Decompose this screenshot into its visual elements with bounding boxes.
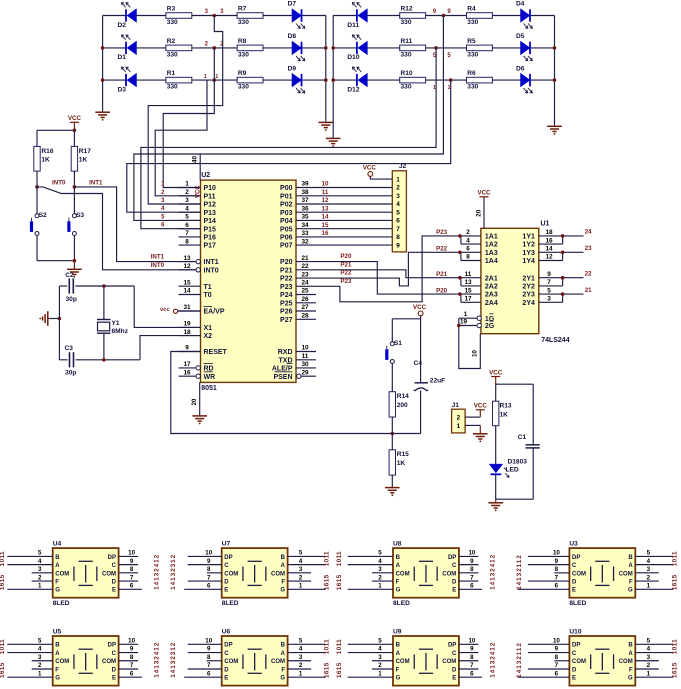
LED D1 (126, 41, 137, 55)
wire to junction (192, 15, 237, 17)
svg-text:23: 23 (585, 245, 592, 252)
wire (531, 47, 555, 49)
svg-text:30: 30 (301, 361, 309, 368)
svg-text:14: 14 (322, 214, 329, 221)
svg-text:10: 10 (553, 638, 560, 645)
pin 16 WR (179, 375, 197, 377)
svg-text:1A4: 1A4 (485, 258, 498, 265)
svg-text:S3: S3 (76, 212, 84, 219)
resistor R12 330 (400, 13, 426, 19)
wire S1 bottom (391, 364, 393, 392)
svg-text:26: 26 (301, 296, 309, 303)
U6 pin 7 D (188, 668, 222, 670)
svg-text:R10: R10 (401, 70, 413, 77)
U4 pin 9 C (119, 564, 139, 566)
svg-text:9: 9 (207, 646, 211, 653)
svg-text:4: 4 (396, 201, 400, 208)
wire net INT1 to MCU (74, 187, 196, 262)
wire LED bottom (495, 474, 497, 499)
svg-text:8LED: 8LED (393, 600, 410, 607)
svg-text:5: 5 (547, 287, 551, 294)
svg-text:F: F (396, 579, 400, 585)
U5 pin 2 F (32, 668, 53, 670)
svg-text:2: 2 (185, 189, 189, 196)
LED D4 emission arrows (524, 24, 533, 29)
ground below switches (67, 269, 82, 274)
wire (263, 47, 292, 49)
svg-text:2: 2 (38, 662, 42, 669)
U8 pin 4 A (348, 564, 393, 566)
svg-text:R15: R15 (397, 451, 409, 458)
svg-text:1: 1 (396, 177, 400, 184)
wire net INT0 to MCU (37, 187, 196, 270)
svg-text:15: 15 (322, 222, 329, 229)
junction dot right rail (553, 46, 557, 50)
svg-text:7: 7 (555, 574, 559, 581)
U10 pin 9 C (528, 652, 570, 654)
svg-text:P20: P20 (280, 259, 293, 266)
svg-text:U4: U4 (53, 541, 62, 548)
U3 pin 5 B (635, 555, 673, 557)
wire to junction (426, 79, 467, 81)
LED D13 emission arrows (504, 468, 509, 478)
svg-text:3: 3 (185, 197, 189, 204)
U1 pin 9 2Y1 (539, 277, 563, 279)
capacitor C4 22uF polarized (415, 382, 428, 384)
svg-text:DP: DP (108, 643, 116, 649)
svg-text:1A2: 1A2 (485, 242, 498, 249)
svg-text:A: A (396, 563, 401, 569)
U8 pin 10 DP (459, 555, 479, 557)
wire net P20 (316, 262, 461, 295)
svg-text:6: 6 (555, 670, 559, 677)
U4 pin 1 G (7, 588, 52, 590)
svg-text:6: 6 (470, 583, 474, 590)
resistor R14 200 (389, 392, 395, 417)
capacitor C1 (526, 444, 540, 446)
wire net 22 (563, 277, 584, 279)
junction dot (561, 234, 565, 238)
svg-text:C: C (452, 651, 457, 657)
svg-text:1: 1 (204, 74, 207, 80)
svg-text:VCC: VCC (413, 304, 427, 311)
VCC power port at S1 (418, 311, 423, 316)
svg-text:C: C (112, 651, 117, 657)
svg-text:P20: P20 (436, 288, 448, 295)
U1 pin 17 2A4 (461, 301, 481, 303)
U3 pin 9 C (528, 564, 570, 566)
svg-text:2Y3: 2Y3 (522, 292, 535, 299)
svg-text:13: 13 (183, 255, 191, 262)
U1 pin 7 2Y2 (539, 285, 563, 287)
svg-text:3: 3 (299, 654, 303, 661)
junction dot (561, 251, 565, 255)
VCC power symbol at R13 (491, 376, 500, 378)
U1 pin 5 2Y3 (539, 293, 563, 295)
svg-text:P05: P05 (280, 226, 293, 233)
svg-text:4: 4 (647, 646, 651, 653)
U9 pin 7 D (459, 668, 479, 670)
svg-text:R6: R6 (467, 70, 476, 77)
junction dot (457, 324, 461, 328)
svg-text:34: 34 (301, 222, 309, 229)
svg-text:P04: P04 (280, 218, 293, 225)
svg-text:P21: P21 (280, 267, 293, 274)
svg-text:COM: COM (396, 659, 410, 665)
wire (303, 47, 326, 49)
junction dot (391, 432, 395, 436)
svg-text:P17: P17 (204, 243, 217, 250)
wire (137, 15, 166, 17)
U8 pin 8 COM (459, 572, 479, 574)
svg-text:22: 22 (301, 263, 309, 270)
svg-text:R4: R4 (467, 6, 476, 13)
wire to ground (73, 261, 75, 270)
U9 segment drawing (414, 649, 437, 673)
svg-text:9: 9 (130, 558, 134, 565)
U4 pin 6 E (119, 588, 142, 590)
LED D10 emission arrows (352, 35, 361, 40)
U8 pin 2 F (372, 580, 393, 582)
svg-text:D: D (452, 579, 457, 585)
svg-text:4: 4 (299, 558, 303, 565)
pin 15 T1 (179, 285, 201, 287)
svg-text:DP: DP (448, 643, 456, 649)
svg-text:5: 5 (396, 209, 400, 216)
svg-text:P06: P06 (280, 235, 293, 242)
svg-text:10: 10 (322, 181, 329, 188)
svg-text:15: 15 (464, 287, 472, 294)
svg-text:1: 1 (38, 670, 42, 677)
U4 segment drawing (74, 561, 97, 585)
pin 8 P17 (179, 244, 201, 246)
pin 40 VCC stub (199, 154, 201, 180)
svg-text:P22: P22 (280, 276, 293, 283)
svg-text:11: 11 (302, 353, 309, 360)
svg-text:6: 6 (470, 670, 474, 677)
svg-text:8: 8 (207, 566, 211, 573)
U1 pin 8 1A4 (461, 260, 481, 262)
svg-text:J1: J1 (452, 402, 460, 409)
wire net P21 (316, 270, 461, 278)
svg-text:P11: P11 (204, 193, 216, 200)
U9 pin 1 G (348, 676, 393, 678)
U5 pin 1 G (7, 676, 52, 678)
svg-text:1: 1 (299, 670, 303, 677)
svg-text:4: 4 (378, 558, 382, 565)
svg-text:P07: P07 (280, 243, 293, 250)
svg-text:9: 9 (130, 646, 134, 653)
wire net 5 (right row2 to P15) (141, 48, 436, 229)
svg-text:2: 2 (457, 415, 461, 422)
svg-text:1615: 1615 (0, 662, 6, 678)
svg-text:9: 9 (555, 558, 559, 565)
U9 pin 2 F (372, 668, 393, 670)
U7 pin 5 B (288, 555, 326, 557)
U3 pin 8 COM (554, 572, 569, 574)
svg-text:1: 1 (447, 85, 450, 91)
U5 segment drawing (74, 649, 97, 673)
junction dot right rail (324, 46, 328, 50)
svg-text:18: 18 (545, 229, 553, 236)
svg-text:RXD: RXD (278, 349, 293, 356)
wire to R16 (36, 130, 38, 146)
ground left array right rail (319, 122, 334, 127)
LED D2 (126, 9, 137, 23)
svg-text:1011: 1011 (336, 639, 343, 654)
svg-text:9: 9 (207, 558, 211, 565)
wire bottom rail (496, 498, 534, 500)
svg-text:8: 8 (470, 654, 474, 661)
svg-text:7: 7 (207, 662, 211, 669)
U9 pin 8 COM (459, 660, 479, 662)
svg-text:P23: P23 (436, 229, 448, 236)
svg-text:COM: COM (572, 659, 586, 665)
VCC power port at J2 pin1 (368, 172, 373, 177)
junction node 9 (442, 14, 446, 18)
LED D7 (292, 9, 302, 23)
junction dot (458, 292, 462, 296)
svg-text:P26: P26 (280, 309, 293, 316)
wire C4 top (420, 319, 422, 383)
svg-text:P25: P25 (280, 300, 293, 307)
svg-text:14: 14 (183, 288, 191, 295)
svg-text:20: 20 (191, 398, 198, 405)
svg-text:1: 1 (647, 670, 651, 677)
svg-text:10: 10 (301, 345, 309, 352)
svg-text:T0: T0 (204, 292, 212, 299)
svg-text:14132412: 14132412 (154, 554, 161, 590)
svg-text:G: G (396, 676, 401, 682)
U1 pin 6 1A3 (461, 251, 481, 253)
pin 28 P27 (296, 318, 316, 320)
wire R15 top (391, 434, 393, 450)
svg-text:1011: 1011 (0, 639, 6, 654)
pin 20 GND stub (199, 382, 201, 415)
svg-text:6: 6 (185, 222, 189, 229)
U8 pin 1 G (348, 588, 393, 590)
U7 pin 9 C (188, 564, 222, 566)
svg-text:F: F (396, 667, 400, 673)
svg-text:D2: D2 (118, 22, 127, 29)
pin 24 P23 (296, 285, 316, 287)
svg-text:U5: U5 (53, 628, 62, 635)
pin 29 PSEN (301, 375, 316, 377)
U10 pin 10 DP (528, 643, 570, 645)
U6 pin 10 DP (188, 643, 222, 645)
svg-text:7: 7 (470, 662, 474, 669)
svg-text:16: 16 (545, 237, 553, 244)
svg-text:22uF: 22uF (430, 377, 445, 384)
wire switch common rail (37, 260, 74, 262)
wire (531, 79, 555, 81)
resistor R16 1K (34, 146, 40, 171)
wire S2 bottom (36, 236, 38, 261)
svg-text:U10: U10 (569, 628, 581, 635)
U5 pin 8 COM (119, 660, 139, 662)
wire P04 to J2 pin 6 (316, 219, 392, 221)
wire R13 to LED (495, 426, 497, 464)
U9 pin 9 C (459, 652, 479, 654)
pin 14 T0 (179, 294, 201, 296)
junction dot (458, 234, 462, 238)
svg-text:3: 3 (299, 566, 303, 573)
VCC power symbol at pullups (70, 121, 79, 123)
svg-text:2A2: 2A2 (485, 284, 498, 291)
svg-text:R2: R2 (167, 38, 176, 45)
svg-text:T1: T1 (204, 284, 212, 291)
svg-text:P12: P12 (204, 202, 217, 209)
U7 pin 1 G (288, 588, 326, 590)
LED D11 (357, 9, 368, 23)
U7 pin 2 F (288, 580, 312, 582)
pin 32 P07 (296, 244, 316, 246)
wire P03 to J2 pin 5 (316, 211, 392, 213)
wire to junction (426, 47, 467, 49)
svg-text:9: 9 (396, 242, 400, 249)
node INT0 (35, 185, 39, 189)
wire left vertical (58, 286, 60, 360)
U9 pin 6 E (459, 676, 482, 678)
svg-text:5: 5 (378, 550, 382, 557)
svg-text:330: 330 (238, 52, 249, 59)
svg-text:C: C (452, 563, 457, 569)
U1 pin 18 1Y1 (539, 235, 563, 237)
wire C1 bottom (532, 448, 534, 499)
svg-text:5: 5 (647, 550, 651, 557)
svg-text:330: 330 (167, 84, 178, 91)
svg-text:U7: U7 (222, 541, 231, 548)
LED D9 emission arrows (296, 88, 305, 93)
svg-text:5: 5 (299, 638, 303, 645)
svg-text:1: 1 (299, 583, 303, 590)
svg-text:R13: R13 (500, 403, 512, 410)
svg-text:R8: R8 (238, 38, 247, 45)
svg-text:DP: DP (224, 643, 232, 649)
pin 23 P22 (296, 277, 316, 279)
svg-text:DP: DP (224, 555, 232, 561)
svg-text:1Y4: 1Y4 (522, 258, 535, 265)
U8 segment drawing (414, 561, 437, 585)
wire net P23 (316, 236, 461, 302)
svg-text:S1: S1 (394, 340, 402, 347)
U10 pin 3 COM (635, 660, 659, 662)
svg-text:1011: 1011 (0, 551, 6, 566)
svg-text:U3: U3 (569, 541, 578, 548)
LED D2 emission arrows (122, 3, 131, 8)
svg-text:P22: P22 (340, 270, 352, 277)
svg-text:36: 36 (301, 205, 309, 212)
wire (367, 47, 399, 49)
wire net 2 (left row2 to P10) (163, 48, 214, 188)
svg-text:DP: DP (572, 555, 580, 561)
svg-text:2A1: 2A1 (485, 275, 498, 282)
U3 pin 1 G (635, 588, 673, 590)
U8 pin 3 COM (372, 572, 393, 574)
ground below D13 (488, 503, 503, 508)
svg-text:6: 6 (130, 670, 134, 677)
svg-text:A: A (281, 563, 286, 569)
ground left array left rail (95, 112, 110, 117)
left LED array left rail wire (102, 16, 104, 112)
svg-text:C: C (572, 651, 577, 657)
wire (137, 79, 166, 81)
svg-text:F: F (629, 667, 633, 673)
svg-text:C: C (112, 563, 117, 569)
svg-text:17: 17 (183, 361, 191, 368)
svg-text:16: 16 (183, 369, 191, 376)
VCC power symbol at U1 pin20 (480, 196, 489, 198)
svg-text:A: A (55, 563, 60, 569)
ground right array right rail (547, 126, 562, 131)
svg-text:P10: P10 (204, 185, 217, 192)
resistor R13 1K (493, 401, 499, 426)
svg-text:R1: R1 (167, 70, 176, 77)
svg-text:12: 12 (183, 263, 191, 270)
svg-text:INT1: INT1 (89, 179, 103, 186)
U4 pin 2 F (32, 580, 53, 582)
output pair tie wires (562, 236, 564, 244)
wire row 3 left array (103, 79, 126, 81)
svg-text:1: 1 (457, 423, 461, 430)
U3 pin 2 F (635, 580, 659, 582)
svg-text:VCC: VCC (489, 369, 503, 376)
svg-text:33: 33 (301, 230, 309, 237)
wire ground tap (48, 318, 60, 320)
svg-text:R11: R11 (401, 38, 413, 45)
svg-text:12: 12 (322, 197, 329, 204)
wire R14 bottom (391, 417, 393, 434)
svg-text:14132412: 14132412 (489, 642, 496, 678)
svg-text:2: 2 (378, 574, 382, 581)
svg-text:8: 8 (555, 566, 559, 573)
svg-text:38: 38 (301, 189, 309, 196)
U9 pin 10 DP (459, 643, 479, 645)
svg-text:9: 9 (555, 646, 559, 653)
wire to ground (495, 499, 497, 503)
wire X2 net (140, 336, 201, 360)
svg-text:3: 3 (647, 566, 651, 573)
pin 37 P02 (296, 203, 316, 205)
pushbutton S2 (35, 214, 39, 218)
svg-text:P22: P22 (436, 246, 448, 253)
svg-text:4: 4 (185, 205, 189, 212)
wire R16 to node (36, 171, 38, 187)
svg-text:P23: P23 (280, 284, 293, 291)
svg-text:F: F (629, 579, 633, 585)
U3 pin 10 DP (528, 555, 570, 557)
svg-text:F: F (281, 667, 285, 673)
pin 6 P15 (179, 228, 201, 230)
LED D10 (357, 41, 368, 55)
74LS244 buffer U1 body (481, 228, 539, 333)
svg-text:40: 40 (192, 156, 199, 163)
svg-text:D: D (224, 667, 229, 673)
svg-text:37: 37 (301, 197, 309, 204)
U6 pin 9 C (188, 652, 222, 654)
right LED array right rail wire (554, 16, 556, 126)
wire S3 top (73, 187, 75, 214)
junction node 3 (213, 14, 217, 18)
svg-text:1615: 1615 (671, 662, 678, 678)
svg-text:10: 10 (468, 550, 475, 557)
svg-text:1A3: 1A3 (485, 250, 498, 257)
U10 segment drawing (591, 649, 614, 673)
svg-text:30p: 30p (65, 369, 76, 376)
svg-text:COM: COM (102, 659, 116, 665)
svg-text:D5: D5 (516, 33, 525, 40)
svg-text:1: 1 (38, 583, 42, 590)
